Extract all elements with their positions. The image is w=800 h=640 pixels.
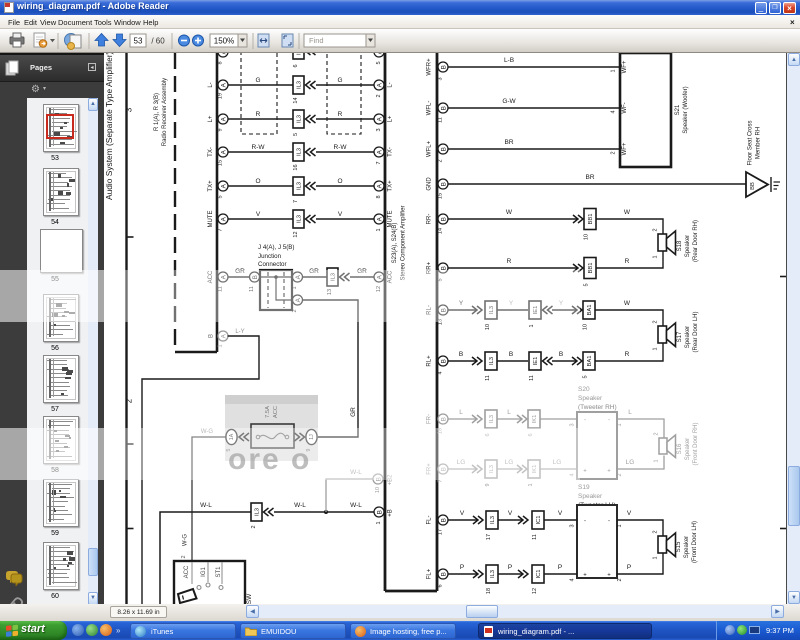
svg-text:Find: Find: [309, 36, 324, 45]
ignition switch box: [174, 561, 245, 609]
wire V S19 to speaker S15: [617, 510, 663, 536]
collaborate icon: [65, 34, 82, 50]
wire B amp to IL3: [448, 351, 476, 361]
svg-text:B: B: [441, 182, 448, 186]
wire W BB1 to speaker S18: [596, 209, 663, 234]
svg-text:P: P: [558, 564, 562, 571]
wire Y amp to IL3: [448, 300, 476, 310]
svg-text:BA1: BA1: [587, 356, 593, 367]
svg-text:5: 5: [583, 375, 589, 378]
svg-text:IL3: IL3: [297, 115, 303, 123]
svg-text:-: -: [608, 519, 610, 525]
svg-text:17: 17: [438, 529, 444, 535]
svg-text:L: L: [628, 409, 632, 416]
svg-text:WFL-: WFL-: [427, 101, 433, 116]
svg-text:A: A: [377, 216, 384, 221]
svg-text:IL3: IL3: [297, 53, 303, 55]
svg-text:11: 11: [532, 534, 538, 540]
svg-text:B: B: [209, 334, 215, 338]
svg-text:B: B: [441, 106, 448, 110]
svg-text:W: W: [506, 209, 513, 216]
connector IC1 pin 11: [518, 511, 544, 540]
svg-text:L-Y: L-Y: [235, 329, 244, 335]
svg-text:53: 53: [134, 37, 143, 46]
svg-text:A: A: [377, 183, 384, 188]
svg-text:S18: S18: [677, 240, 683, 251]
wire L-Y from radio B: [142, 329, 259, 604]
svg-text:-: -: [584, 418, 586, 424]
svg-text:B: B: [441, 572, 448, 576]
print icon: [10, 33, 24, 47]
tweeter S20 box: [577, 412, 617, 479]
svg-text:W-L: W-L: [350, 502, 362, 509]
connector IC1 pin 12: [518, 565, 544, 594]
wire B IE1 to BA1: [552, 351, 576, 361]
wire R BB1 to speaker S18: [596, 252, 663, 269]
wire LG amp to IL3 gray: [448, 459, 476, 469]
svg-text:B: B: [441, 518, 448, 522]
svg-text:7: 7: [218, 228, 224, 231]
svg-text:R: R: [625, 258, 630, 265]
svg-text:Speaker: Speaker: [685, 326, 691, 348]
svg-text:R 1(A), R 3(B): R 1(A), R 3(B): [154, 93, 160, 131]
svg-text:ACC: ACC: [273, 406, 279, 418]
svg-text:1: 1: [528, 483, 534, 486]
ignition switch contacts: [192, 562, 223, 590]
svg-text:2: 2: [376, 94, 382, 97]
svg-text:/ 60: / 60: [151, 37, 165, 46]
connector IE1 pin 1: [529, 301, 553, 328]
svg-text:BA1: BA1: [587, 305, 593, 316]
svg-text:A: A: [221, 333, 228, 338]
wire W to BB1: [448, 209, 577, 219]
svg-text:1: 1: [611, 69, 617, 72]
svg-text:S19: S19: [578, 484, 590, 491]
svg-text:BR: BR: [585, 174, 594, 181]
bottom status row: [0, 604, 800, 621]
svg-text:R: R: [338, 111, 343, 118]
pane v scrollbar: [88, 98, 98, 612]
connector BB1 pin 10: [573, 209, 596, 241]
svg-text:14: 14: [438, 228, 444, 234]
svg-text:12: 12: [293, 231, 299, 237]
svg-text:IC1: IC1: [536, 569, 542, 578]
svg-text:O: O: [337, 178, 342, 185]
shield box left: [241, 40, 277, 134]
svg-text:IL3: IL3: [297, 215, 303, 223]
wire R IL3 to amplifier: [316, 111, 374, 119]
next page arrow: [113, 34, 126, 47]
amplifier pin FL- 17: [427, 515, 449, 535]
svg-text:G-W: G-W: [502, 98, 516, 105]
svg-text:7: 7: [376, 161, 382, 164]
svg-text:11: 11: [529, 375, 535, 381]
svg-text:A: A: [377, 53, 384, 54]
wire Y IE1 to BA1: [552, 300, 576, 310]
amplifier pin L+: [374, 114, 394, 132]
connector IL3 pin 10: [472, 301, 497, 330]
wire R-W IL3 to amplifier: [316, 144, 374, 152]
svg-text:IL3: IL3: [297, 81, 303, 89]
wire GR junction pin2 down to fuse: [303, 300, 358, 437]
vertical page title: [98, 53, 120, 213]
svg-text:6: 6: [438, 584, 444, 587]
wire V IL3 to amplifier: [316, 211, 374, 219]
svg-text:W: W: [624, 300, 631, 307]
amplifier pin L-: [374, 80, 394, 98]
wire W BA1 to speaker S17: [595, 300, 663, 326]
wire BR to woofer: [448, 139, 620, 149]
svg-text:Speaker: Speaker: [685, 235, 691, 257]
S15 pin 2: [653, 530, 659, 533]
svg-text:S21: S21: [675, 104, 681, 115]
fuse F1 7.5A: [251, 424, 294, 448]
svg-text:1: 1: [653, 556, 659, 559]
ground location label: [748, 120, 762, 165]
svg-text:FL-: FL-: [427, 515, 433, 524]
svg-text:ST1: ST1: [216, 566, 222, 578]
svg-text:LG: LG: [626, 459, 635, 466]
svg-text:+: +: [607, 573, 611, 579]
fit width icon: [258, 34, 269, 47]
svg-text:10: 10: [584, 234, 590, 240]
svg-text:P: P: [508, 564, 512, 571]
svg-text:2: 2: [654, 432, 660, 435]
ignition SW label: [246, 593, 253, 604]
svg-text:B: B: [441, 147, 448, 151]
wire V radio to IL3 row MUTE: [228, 211, 294, 219]
wire L amp to IL3 gray: [448, 409, 476, 419]
S20 pin 1: [608, 418, 623, 427]
svg-text:FR-: FR-: [427, 414, 433, 424]
connector IK1 pin 6 gray: [517, 410, 540, 437]
connector BB1 pin 5: [573, 258, 596, 287]
svg-text:R: R: [625, 351, 630, 358]
svg-text:V: V: [627, 510, 632, 517]
svg-text:15: 15: [218, 160, 224, 166]
svg-text:R-W: R-W: [334, 144, 348, 151]
junction pin A 2: [292, 295, 303, 313]
tweeter S19 labels: [578, 484, 616, 509]
svg-text:1: 1: [653, 347, 659, 350]
svg-text:B: B: [509, 351, 513, 358]
svg-text:2: 2: [653, 530, 659, 533]
junction connector IL3 pin 7: [293, 177, 316, 203]
S16 pin 1: [654, 459, 660, 462]
S19 pin 2: [607, 573, 623, 582]
svg-text:GND: GND: [427, 177, 433, 191]
wire L IK1 to S20 gray: [540, 418, 577, 420]
wire GR junction to IL3: [303, 268, 327, 277]
amplifier pin RL- 13: [427, 305, 449, 325]
wire GR IL3 to amp ACC: [350, 268, 374, 277]
svg-text:A: A: [377, 82, 384, 87]
svg-text:1: 1: [653, 255, 659, 258]
svg-text:3: 3: [125, 107, 134, 112]
diagram svg: [104, 53, 786, 604]
svg-text:-: -: [584, 519, 586, 525]
amplifier pin FR+ 7 (gray): [427, 463, 449, 483]
fit page icon: [282, 34, 293, 47]
wire P IL3 to IC1: [498, 564, 522, 574]
svg-text:7: 7: [293, 200, 299, 203]
svg-text:5: 5: [293, 133, 299, 136]
svg-text:+B: +B: [388, 509, 394, 517]
svg-text:BB1: BB1: [588, 263, 594, 274]
svg-text:R: R: [507, 258, 512, 265]
svg-text:Radio Receiver Assembly: Radio Receiver Assembly: [162, 78, 168, 146]
fuse block background: [225, 395, 318, 461]
svg-text:IL3: IL3: [255, 508, 261, 516]
find box: [304, 34, 366, 47]
partial top row pins: [218, 43, 385, 68]
svg-text:1: 1: [529, 324, 535, 327]
svg-text:2: 2: [611, 151, 617, 154]
wire R radio to IL3 row L+: [228, 111, 294, 119]
S18 pin 2: [653, 228, 659, 231]
connector IL3 pin 6 gray: [472, 410, 497, 437]
svg-text:P: P: [460, 564, 464, 571]
svg-text:V: V: [508, 510, 513, 517]
svg-text:R: R: [256, 111, 261, 118]
svg-text:TX-: TX-: [388, 147, 394, 157]
svg-text:IL3: IL3: [297, 182, 303, 190]
svg-text:IG1: IG1: [201, 567, 207, 577]
svg-text:5: 5: [218, 195, 224, 198]
svg-text:Member RH: Member RH: [756, 127, 762, 159]
export icon: [34, 33, 55, 47]
svg-text:W-G: W-G: [183, 534, 189, 547]
wire R-W radio to IL3 row TX-: [228, 144, 294, 152]
svg-text:Speaker (Woofer): Speaker (Woofer): [683, 86, 689, 133]
zoom out icon: [179, 35, 190, 46]
svg-text:WF-: WF-: [622, 102, 628, 113]
speaker S16 gray: [659, 435, 676, 458]
svg-text:S20: S20: [578, 386, 590, 393]
wire LG S20 to speaker S16 gray: [617, 456, 664, 470]
svg-text:IE1: IE1: [533, 357, 539, 366]
connector IL3 pin 2 W-L row: [251, 503, 274, 529]
svg-text:IL3: IL3: [490, 516, 496, 524]
prev page arrow: [95, 34, 108, 47]
radio pin TX-: [208, 147, 228, 166]
ground earth symbol: [771, 177, 780, 192]
svg-text:IL3: IL3: [489, 415, 495, 423]
task buttons: [130, 623, 236, 639]
amplifier label: [392, 205, 407, 280]
svg-text:A: A: [221, 116, 228, 121]
left sidebar: [0, 53, 104, 621]
svg-text:Connector: Connector: [258, 261, 287, 268]
speaker S16 label: [677, 422, 699, 465]
svg-text:2: 2: [617, 473, 623, 476]
svg-text:7.5A: 7.5A: [265, 406, 271, 418]
amplifier pin WFL+ 2: [427, 140, 449, 162]
wire W-L branch to +B2 (gray): [326, 469, 373, 512]
amplifier pin WFR+ 3: [427, 58, 449, 81]
quick launch: [72, 624, 84, 636]
node 2 label: [125, 398, 134, 403]
svg-text:BB: BB: [750, 182, 756, 190]
svg-text:BB1: BB1: [588, 214, 594, 225]
svg-text:2: 2: [438, 159, 444, 162]
svg-text:A: A: [221, 82, 228, 87]
svg-text:B: B: [441, 359, 448, 363]
svg-text:18: 18: [486, 588, 492, 594]
menu bar: [0, 15, 800, 29]
svg-text:Floor Seat Cross: Floor Seat Cross: [748, 120, 754, 165]
svg-text:1: 1: [376, 228, 382, 231]
speaker S18: [658, 231, 676, 255]
svg-text:MUTE: MUTE: [388, 211, 394, 228]
S16 pin 2: [654, 432, 660, 435]
svg-text:1: 1: [218, 344, 224, 347]
svg-text:MUTE: MUTE: [208, 211, 214, 228]
svg-text:B: B: [377, 510, 384, 514]
svg-text:L: L: [459, 409, 463, 416]
svg-text:16: 16: [293, 164, 299, 170]
svg-text:TX+: TX+: [208, 180, 214, 192]
svg-text:S23(A), S24(B): S23(A), S24(B): [392, 223, 398, 264]
svg-text:L: L: [507, 409, 511, 416]
svg-text:A: A: [377, 116, 384, 121]
connector IL3 pin 18: [473, 565, 498, 594]
wire R BA1 to speaker S17: [595, 344, 663, 362]
svg-text:2: 2: [125, 398, 134, 403]
wire W-L left feed: [160, 502, 251, 604]
wire B IL3 to IE1: [497, 351, 528, 361]
svg-text:L-B: L-B: [504, 57, 514, 64]
radio pin B 1: [209, 331, 229, 348]
svg-text:3: 3: [570, 524, 576, 527]
svg-text:2: 2: [251, 525, 257, 528]
svg-text:6: 6: [293, 64, 299, 67]
zoom in icon: [193, 35, 204, 46]
svg-text:19: 19: [218, 93, 224, 99]
right vertical scrollbar: [786, 53, 800, 604]
tweeter S19 box: [577, 505, 617, 578]
connector BA1 pin 10: [572, 301, 595, 330]
svg-text:4: 4: [611, 110, 617, 113]
amplifier pin +B 1: [374, 507, 394, 525]
document white page: [104, 53, 786, 604]
svg-text:3: 3: [376, 128, 382, 131]
wire W-G fuse to ignition switch: [183, 429, 226, 562]
svg-text:4: 4: [438, 371, 444, 374]
junction connector IL3 pin 14: [293, 76, 316, 104]
ignition key symbol: [178, 589, 197, 603]
junction connector IL3 pin 16: [293, 143, 316, 171]
S17 pin 2: [653, 320, 659, 323]
ignition switch labels: [181, 555, 222, 578]
junction pin A 1: [292, 272, 303, 290]
wire GR radio ACC to junction: [228, 268, 250, 277]
svg-text:(Rear Door LH): (Rear Door LH): [693, 311, 699, 352]
svg-text:S15: S15: [676, 541, 682, 552]
thumbnails pane: [27, 98, 98, 612]
svg-text:S17: S17: [677, 331, 683, 342]
toolbar: [0, 29, 800, 53]
wire P S19 to speaker S15: [617, 553, 663, 575]
S20 pin 4: [570, 469, 588, 477]
svg-text:3: 3: [570, 423, 576, 426]
junction dot W-L: [324, 510, 328, 514]
svg-text:10: 10: [485, 324, 491, 330]
svg-text:A: A: [221, 53, 228, 54]
speaker S18 label: [677, 220, 699, 262]
comments + attachments icons: [4, 570, 24, 586]
wire V IC1 to S19: [544, 510, 577, 520]
zoom box: [210, 34, 238, 47]
svg-text:IK1: IK1: [532, 415, 538, 424]
svg-text:B: B: [441, 217, 448, 221]
svg-text:10: 10: [583, 324, 589, 330]
svg-text:5: 5: [584, 283, 590, 286]
amplifier pin +B2 10 (gray): [373, 474, 394, 493]
svg-text:L+: L+: [388, 115, 394, 122]
amplifier pin FR- 18 (gray): [427, 414, 449, 434]
svg-text:(Rear Door RH): (Rear Door RH): [693, 220, 699, 262]
svg-text:A: A: [377, 149, 384, 154]
svg-text:V: V: [256, 211, 261, 218]
svg-text:O: O: [255, 178, 260, 185]
radio receiver label: [154, 78, 168, 146]
svg-text:B: B: [441, 65, 448, 69]
svg-text:FL+: FL+: [427, 568, 433, 579]
S19 pin 4: [570, 573, 588, 582]
woofer pin 2 WF+: [611, 142, 629, 155]
svg-text:(Front Door RH): (Front Door RH): [693, 422, 699, 465]
amplifier pin MUTE: [374, 211, 394, 232]
svg-text:W-L: W-L: [294, 502, 306, 509]
svg-text:+: +: [607, 469, 611, 475]
svg-text:A: A: [221, 183, 228, 188]
svg-text:R-W: R-W: [252, 144, 266, 151]
svg-text:GR: GR: [350, 407, 357, 417]
wire R to BB1: [448, 258, 577, 268]
S18 pin 1: [653, 255, 659, 258]
wire P amp to IL3: [448, 564, 477, 574]
svg-text:IL3: IL3: [489, 357, 495, 365]
svg-text:B: B: [459, 351, 463, 358]
svg-text:8: 8: [376, 195, 382, 198]
svg-text:V: V: [558, 510, 563, 517]
junction pin B 11: [249, 272, 260, 292]
svg-text:+: +: [583, 469, 587, 475]
shield box right: [327, 40, 361, 134]
amplifier pin ACC 12: [374, 270, 394, 292]
junction connector J4/J5 box: [260, 270, 292, 310]
watermark bands: [0, 270, 104, 322]
pane h scrollbar: [27, 604, 98, 617]
svg-text:S16: S16: [677, 443, 683, 454]
amplifier pin TX-: [374, 147, 394, 165]
svg-text:11: 11: [485, 375, 491, 381]
wire L S20 to speaker S16 gray: [617, 409, 664, 438]
speaker S21 label: [675, 86, 689, 133]
wire O IL3 to amplifier: [316, 178, 374, 186]
junction connector IL3 pin 12: [293, 210, 316, 238]
svg-text:1: 1: [617, 423, 623, 426]
woofer pin 1 WF+: [611, 60, 629, 73]
title bar: [0, 0, 800, 15]
svg-text:Speaker: Speaker: [578, 493, 603, 500]
connector IK1 pin 1 gray: [517, 460, 540, 487]
svg-text:12: 12: [532, 588, 538, 594]
wire G-W to woofer: [448, 98, 620, 108]
start button: [0, 621, 67, 640]
tweeter S20 labels: [578, 386, 617, 411]
